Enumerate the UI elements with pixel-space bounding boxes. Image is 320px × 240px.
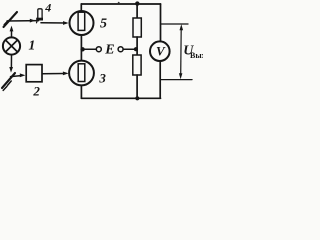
photocell 5 (70, 11, 94, 35)
wire: junction to E terminal (84, 48, 96, 50)
wire: right branch down to voltmeter (160, 4, 162, 42)
wire: light beam from top mirror to wedge 4 (7, 19, 39, 23)
wire: beam lamp down to bottom mirror (9, 55, 13, 73)
node Uout double arrow (179, 24, 183, 79)
svg-text:1: 1 (28, 39, 35, 54)
wire: photocell 5 to photocell 3 (80, 35, 82, 61)
junction on bottom rail (135, 96, 139, 100)
svg-text:E: E (104, 43, 114, 58)
svg-text:5: 5 (100, 16, 107, 31)
terminal (left of E) (96, 47, 101, 52)
wire: output upper tick (161, 23, 189, 25)
wire: beam box 2 into photocell 3 (42, 72, 68, 76)
wire: top supply rail (81, 3, 160, 5)
voltmeter V (150, 41, 170, 61)
lamp 1 (3, 37, 20, 54)
wire: voltmeter to bottom rail (159, 61, 161, 98)
filter box 2 (26, 65, 42, 82)
optical wedge 4 (36, 9, 43, 23)
label Uvyh (183, 44, 205, 60)
ink speck (118, 2, 120, 4)
wire: output lower tick (161, 79, 193, 81)
wire: beam lamp up to top mirror (10, 26, 14, 37)
wire: E terminal to divider midpoint (123, 48, 134, 50)
junction on top rail (135, 1, 139, 5)
wire: photocell 3 bottom to bottom rail (80, 86, 82, 99)
mirror (top, deflects lamp beam right) (4, 12, 18, 27)
svg-text:4: 4 (44, 0, 51, 14)
terminal (right of E) (118, 47, 123, 52)
resistor R1 (upper half of divider) (133, 18, 141, 37)
svg-text:2: 2 (32, 84, 40, 99)
svg-text:3: 3 (98, 70, 106, 85)
junction at divider midpoint (134, 47, 138, 51)
svg-text:Вых: Вых (190, 51, 203, 60)
mirror (bottom, deflects lamp beam right) (2, 73, 15, 90)
wire: rail to resistor R1 (136, 4, 138, 18)
wire: photocell 5 top to supply rail (80, 4, 82, 11)
node E junction at photocells (80, 47, 84, 51)
wire: bottom return rail (81, 97, 160, 99)
wire: beam bottom mirror to box 2 (11, 73, 26, 77)
wire: R2 to bottom rail (136, 75, 138, 98)
svg-text:V: V (156, 43, 166, 58)
wire: light beam from wedge 4 into photocell 5 (41, 21, 69, 25)
resistor R2 (lower half of divider) (133, 55, 141, 75)
wire: R1 to node E junction (136, 37, 138, 55)
photocell 3 (69, 61, 94, 86)
